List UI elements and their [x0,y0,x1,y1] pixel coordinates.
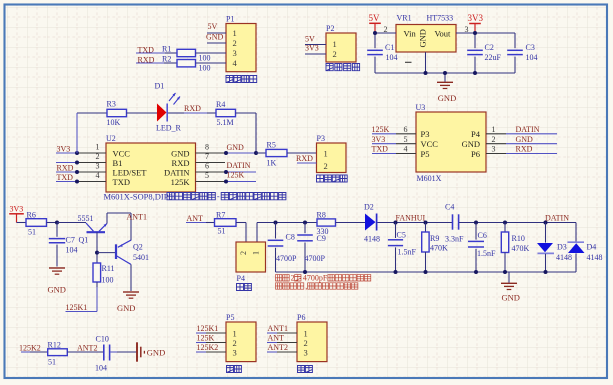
svg-text:4148: 4148 [556,253,572,262]
svg-text:GND: GND [147,348,165,358]
svg-text:P4: P4 [237,274,245,283]
svg-text:3: 3 [304,347,308,357]
svg-text:GND: GND [48,285,66,295]
svg-text:LED/SET: LED/SET [113,168,148,178]
svg-text:P1: P1 [226,15,234,24]
svg-text:R10: R10 [512,234,525,243]
svg-text:B1: B1 [113,158,123,168]
svg-text:ANT2: ANT2 [77,344,97,353]
svg-text:2: 2 [291,274,295,283]
svg-text:2: 2 [492,135,496,144]
svg-text:GND: GND [502,293,520,303]
svg-text:RXD: RXD [57,164,74,173]
svg-text:4700P: 4700P [276,254,297,263]
svg-text:5401: 5401 [133,253,149,262]
svg-text:2: 2 [304,338,308,348]
svg-text:C7: C7 [66,236,75,245]
svg-text:VCC: VCC [113,149,131,159]
svg-text:C4: C4 [445,203,454,212]
svg-text:R5: R5 [267,141,276,150]
svg-text:D4: D4 [587,243,597,252]
svg-text:125K1: 125K1 [197,324,219,333]
svg-text:RXD: RXD [516,145,533,154]
svg-text:100: 100 [199,64,211,73]
svg-text:3V3: 3V3 [305,44,319,53]
svg-text:125K: 125K [197,334,215,343]
svg-text:3: 3 [492,145,496,154]
svg-text:125K2: 125K2 [19,344,41,353]
svg-text:5.1M: 5.1M [217,118,234,127]
svg-text:VR1: VR1 [397,14,412,23]
svg-text:U3: U3 [416,103,426,112]
svg-text:4148: 4148 [587,253,603,262]
svg-text:P2: P2 [326,24,334,33]
svg-text:D1: D1 [155,82,165,91]
svg-text:3V3: 3V3 [468,13,484,23]
svg-text:4: 4 [404,145,408,154]
svg-text:GND: GND [516,135,534,144]
svg-text:1: 1 [252,251,261,255]
svg-text:C10: C10 [96,335,109,344]
svg-text:1: 1 [233,28,237,38]
svg-text:2: 2 [333,49,337,59]
svg-text:LED_R: LED_R [156,124,182,133]
svg-text:Vout: Vout [435,29,452,39]
svg-text:4: 4 [96,171,100,180]
svg-text:M601X-SOP8,DIP8: M601X-SOP8,DIP8 [104,192,173,202]
svg-text:C8: C8 [286,233,295,242]
svg-text:D3: D3 [557,243,567,252]
svg-text:470K: 470K [430,244,448,253]
svg-text:GND: GND [438,93,456,103]
svg-text:125K2: 125K2 [197,343,219,352]
svg-text:R11: R11 [102,264,115,273]
svg-text:51: 51 [28,228,36,237]
svg-text:3: 3 [96,162,100,171]
svg-text:C5: C5 [397,231,406,240]
svg-text:P5: P5 [226,313,234,322]
svg-text:C2: C2 [485,43,494,52]
svg-text:RXD: RXD [172,158,190,168]
svg-text:5551: 5551 [78,214,94,223]
svg-text:2: 2 [233,338,237,348]
svg-text:P4: P4 [471,129,481,139]
svg-text:M601X: M601X [417,174,442,183]
svg-text:5V: 5V [369,13,381,23]
svg-text:ANT1: ANT1 [127,213,147,222]
svg-text:1: 1 [304,328,308,338]
svg-text:TXD: TXD [372,145,389,154]
svg-text:P5: P5 [421,149,430,159]
svg-text:104: 104 [386,53,398,62]
svg-text:6: 6 [404,125,408,134]
svg-text:22uF: 22uF [485,53,502,62]
svg-text:R3: R3 [107,100,116,109]
svg-text:2: 2 [233,38,237,48]
svg-text:2: 2 [96,152,100,161]
svg-text:DATIN: DATIN [545,213,569,222]
svg-text:TXD: TXD [113,177,130,187]
svg-text:C9: C9 [317,234,326,243]
svg-text:ANT: ANT [268,334,285,343]
svg-text:RXD: RXD [184,104,201,113]
svg-text:ANT2: ANT2 [268,343,288,352]
svg-text:4148: 4148 [364,235,380,244]
svg-text:1.5nF: 1.5nF [477,249,496,258]
svg-text:470K: 470K [512,244,530,253]
svg-text:P6: P6 [471,149,480,159]
svg-text:104: 104 [526,53,538,62]
svg-text:GND: GND [171,149,189,159]
svg-text:5V: 5V [208,22,218,31]
svg-text:8: 8 [205,143,209,152]
svg-text:RXD: RXD [296,154,313,163]
svg-text:5V: 5V [305,35,315,44]
svg-text:FANHUI: FANHUI [396,213,426,222]
svg-text:TXD: TXD [57,173,74,182]
svg-text:125K: 125K [227,171,245,180]
svg-text:104: 104 [66,246,78,255]
svg-text:ANT1: ANT1 [268,324,288,333]
svg-text:2: 2 [324,161,328,171]
svg-text:HT7533: HT7533 [427,14,454,23]
svg-text:1: 1 [233,328,237,338]
svg-text:,: , [305,282,307,291]
svg-text:51: 51 [218,227,226,236]
svg-text:3: 3 [233,347,237,357]
svg-text:1: 1 [333,39,337,49]
svg-text:GND: GND [418,29,428,47]
svg-text:Q1: Q1 [79,236,89,245]
svg-text:GND: GND [227,143,245,152]
svg-text:DATIN: DATIN [516,125,540,134]
svg-text:125K: 125K [372,125,390,134]
svg-text:DATIN: DATIN [227,161,251,170]
svg-text:P3: P3 [421,129,430,139]
svg-text:1: 1 [324,149,328,159]
svg-text:104: 104 [95,364,107,373]
svg-text:-: - [217,192,220,201]
svg-text:D2: D2 [364,203,374,212]
svg-text:VCC: VCC [421,139,439,149]
svg-text:1: 1 [96,143,100,152]
svg-text:C3: C3 [526,43,535,52]
svg-text:P6: P6 [297,313,305,322]
svg-text:GND: GND [206,33,224,42]
svg-text:Vin: Vin [404,29,417,39]
svg-text:2: 2 [384,25,388,34]
svg-text:ANT: ANT [187,214,204,223]
svg-text:DATIN: DATIN [164,168,190,178]
svg-text:R2: R2 [162,55,171,64]
svg-text:3V3: 3V3 [372,135,386,144]
svg-text:GND: GND [117,303,135,313]
svg-text:U2: U2 [106,134,116,143]
svg-text:R1: R1 [162,45,171,54]
svg-text:R9: R9 [430,234,439,243]
svg-text:125K1: 125K1 [66,303,88,312]
svg-text:10K: 10K [107,118,121,127]
svg-text:5: 5 [404,135,408,144]
svg-text:51: 51 [48,358,56,367]
svg-text:3V3: 3V3 [10,205,24,214]
svg-text:R4: R4 [216,100,225,109]
svg-text:Q2: Q2 [133,243,143,252]
svg-text:100: 100 [102,276,114,285]
svg-text:3.3nF: 3.3nF [445,235,464,244]
svg-text:2: 2 [239,251,248,255]
svg-text:GND: GND [462,139,480,149]
svg-text:1.5nF: 1.5nF [398,248,417,257]
svg-text:P3: P3 [317,134,325,143]
svg-text:125K: 125K [171,177,191,187]
svg-text:C1: C1 [385,43,394,52]
svg-text:3: 3 [233,48,237,58]
svg-text:3V3: 3V3 [57,145,71,154]
svg-text:C6: C6 [478,231,487,240]
svg-text:R8: R8 [317,211,326,220]
svg-text:4700P: 4700P [305,254,326,263]
svg-text:100: 100 [199,54,211,63]
svg-text:3: 3 [465,25,469,34]
svg-text:1: 1 [492,125,496,134]
svg-text:1K: 1K [267,159,277,168]
